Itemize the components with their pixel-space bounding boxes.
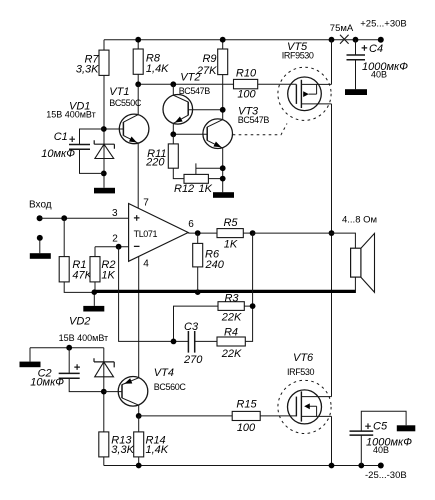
trimmer R12 — [174, 163, 223, 195]
input ground terminal — [30, 235, 51, 259]
svg-text:IRF9530: IRF9530 — [282, 51, 314, 61]
svg-text:VT2: VT2 — [180, 72, 200, 84]
svg-text:3,3K: 3,3K — [76, 64, 99, 76]
svg-text:Вход: Вход — [29, 200, 52, 211]
node R1 R2 ground — [92, 289, 98, 295]
svg-text:240: 240 — [205, 259, 225, 271]
resistor R2 — [90, 247, 116, 293]
resistor R1 — [59, 218, 94, 292]
capacitor C1 — [41, 129, 104, 173]
node R14 bottom — [136, 463, 142, 469]
node input R1 — [61, 215, 67, 221]
node rail R9 — [220, 37, 226, 43]
ground under C4 — [345, 89, 367, 95]
mosfet VT5 IRF9530 — [278, 41, 332, 120]
node +V terminal — [360, 19, 406, 43]
svg-text:40В: 40В — [371, 70, 387, 80]
node C2 top — [66, 345, 72, 351]
node output — [329, 230, 335, 236]
wire R5 to output — [253, 232, 332, 234]
svg-text:C1: C1 — [54, 131, 68, 143]
resistor R10 — [234, 68, 297, 101]
svg-text:+25...+30В: +25...+30В — [360, 19, 406, 30]
svg-text:3: 3 — [112, 208, 118, 219]
resistor R11 — [145, 134, 184, 178]
svg-text:TL071: TL071 — [134, 229, 158, 239]
ground under R1 R2 — [83, 292, 104, 311]
svg-text:4...8 Ом: 4...8 Ом — [342, 215, 377, 226]
transistor VT2 — [163, 72, 223, 135]
node R12 right — [220, 176, 226, 182]
svg-text:R5: R5 — [223, 217, 238, 229]
mosfet VT6 IRF530 — [278, 352, 332, 434]
wire bottom -V rail — [104, 465, 381, 467]
capacitor C2 — [30, 348, 104, 392]
svg-text:VT1: VT1 — [109, 86, 129, 98]
node -V terminal — [365, 463, 407, 482]
input terminal — [29, 200, 129, 222]
svg-text:VT6: VT6 — [293, 352, 314, 364]
resistor R9 — [196, 40, 228, 110]
svg-text:22K: 22K — [221, 348, 242, 360]
svg-text:-25...-30В: -25...-30В — [365, 470, 407, 481]
capacitor C4 — [347, 40, 409, 89]
svg-text:BC550C: BC550C — [109, 98, 142, 108]
resistor R8 — [133, 40, 169, 85]
svg-text:IRF530: IRF530 — [287, 367, 315, 377]
wire op-amp pin4 to VT4 emitter — [138, 257, 140, 378]
node rail R8 — [135, 37, 141, 43]
op-amp U1 TL071 — [112, 198, 194, 270]
wire op-amp output pin6 — [188, 232, 217, 234]
svg-text:C5: C5 — [373, 421, 388, 433]
svg-text:3,3K: 3,3K — [111, 444, 134, 456]
resistor R14 — [134, 416, 169, 466]
svg-text:VT4: VT4 — [154, 367, 174, 379]
ground left of C2 — [20, 362, 41, 368]
svg-text:2: 2 — [112, 234, 118, 245]
ground under VD1 — [94, 188, 115, 194]
node VT3 collector — [220, 107, 226, 113]
svg-text:15В 400мВт: 15В 400мВт — [46, 110, 96, 120]
resistor R13 — [99, 432, 135, 466]
svg-text:10мкФ: 10мкФ — [30, 377, 64, 389]
resistor R15 — [139, 399, 297, 435]
transistor VT1 — [104, 84, 149, 208]
svg-text:1,4K: 1,4K — [146, 63, 169, 75]
capacitor C5 — [350, 411, 413, 465]
svg-text:100: 100 — [237, 89, 256, 101]
svg-text:R15: R15 — [236, 399, 257, 411]
node R5 right — [250, 230, 256, 236]
svg-text:220: 220 — [145, 157, 165, 169]
zener VD1 — [46, 101, 114, 159]
node VT6 source rail — [329, 463, 335, 469]
node R8 bottom — [135, 81, 141, 87]
node C1 bottom — [101, 171, 107, 177]
svg-text:BC547B: BC547B — [179, 86, 211, 96]
svg-text:BC547B: BC547B — [238, 115, 270, 125]
svg-text:R3: R3 — [224, 293, 239, 305]
svg-text:22K: 22K — [221, 312, 242, 324]
svg-text:R4: R4 — [224, 327, 238, 339]
node VT2 emitter / R11 top — [170, 131, 176, 137]
node pin6 — [195, 230, 201, 236]
wire VT5 rail and output column — [331, 40, 333, 466]
node feedback C3 — [171, 339, 177, 345]
ground under VT3 — [213, 192, 234, 198]
node rail C4 — [353, 37, 359, 43]
svg-text:4: 4 — [143, 259, 149, 270]
node R6 bus — [195, 289, 201, 295]
wire op-amp pin2 — [95, 246, 129, 248]
resistor R4 — [217, 327, 245, 361]
svg-text:75мА: 75мА — [330, 23, 354, 34]
svg-text:BC560C: BC560C — [154, 382, 187, 392]
ground right of C5 — [397, 425, 416, 431]
thick speaker return bus — [94, 290, 356, 293]
resistor R3 — [218, 293, 244, 324]
resistor R7 — [76, 40, 109, 188]
svg-text:1K: 1K — [199, 183, 213, 195]
svg-text:1,4K: 1,4K — [146, 444, 169, 456]
node C5 bottom — [358, 463, 364, 469]
svg-text:R12: R12 — [174, 183, 194, 195]
svg-text:40В: 40В — [373, 445, 389, 455]
svg-text:270: 270 — [183, 354, 203, 366]
wire bus y=84.3 R8 to R10 — [138, 83, 233, 85]
capacitor C3 — [183, 321, 203, 366]
resistor R5 — [217, 217, 253, 251]
svg-text:C3: C3 — [184, 321, 199, 333]
wire top +V rail — [104, 39, 381, 41]
node rail VT5 source — [329, 37, 335, 43]
node VT2 collector — [170, 81, 176, 87]
svg-text:1K: 1K — [101, 270, 115, 282]
node R12 wiper — [220, 165, 226, 171]
node VT1 base / VD1 — [101, 126, 107, 132]
fuse X 75mA — [330, 23, 354, 44]
svg-text:100: 100 — [237, 422, 256, 434]
svg-text:10мкФ: 10мкФ — [41, 148, 75, 160]
node feedback pin2 — [116, 244, 122, 250]
svg-text:R10: R10 — [236, 68, 257, 80]
transistor VT3 — [173, 106, 269, 193]
resistor R6 — [193, 233, 225, 291]
node VT4 base — [101, 389, 107, 395]
svg-text:7: 7 — [143, 198, 149, 209]
transistor VT4 — [104, 367, 187, 416]
svg-text:VD2: VD2 — [69, 316, 90, 328]
node R3 right — [250, 303, 256, 309]
svg-text:R9: R9 — [202, 53, 216, 65]
svg-text:1K: 1K — [224, 239, 238, 251]
svg-text:C4: C4 — [369, 43, 383, 55]
node VT4 collector — [136, 413, 142, 419]
dashed thermal link VT3-VT5 — [233, 124, 287, 135]
zener VD2 — [30, 316, 114, 432]
feedback network wires — [119, 233, 253, 341]
svg-text:15В 400мВт: 15В 400мВт — [59, 333, 109, 343]
speaker 4..8 Ohm — [332, 215, 378, 293]
svg-text:6: 6 — [188, 219, 194, 230]
